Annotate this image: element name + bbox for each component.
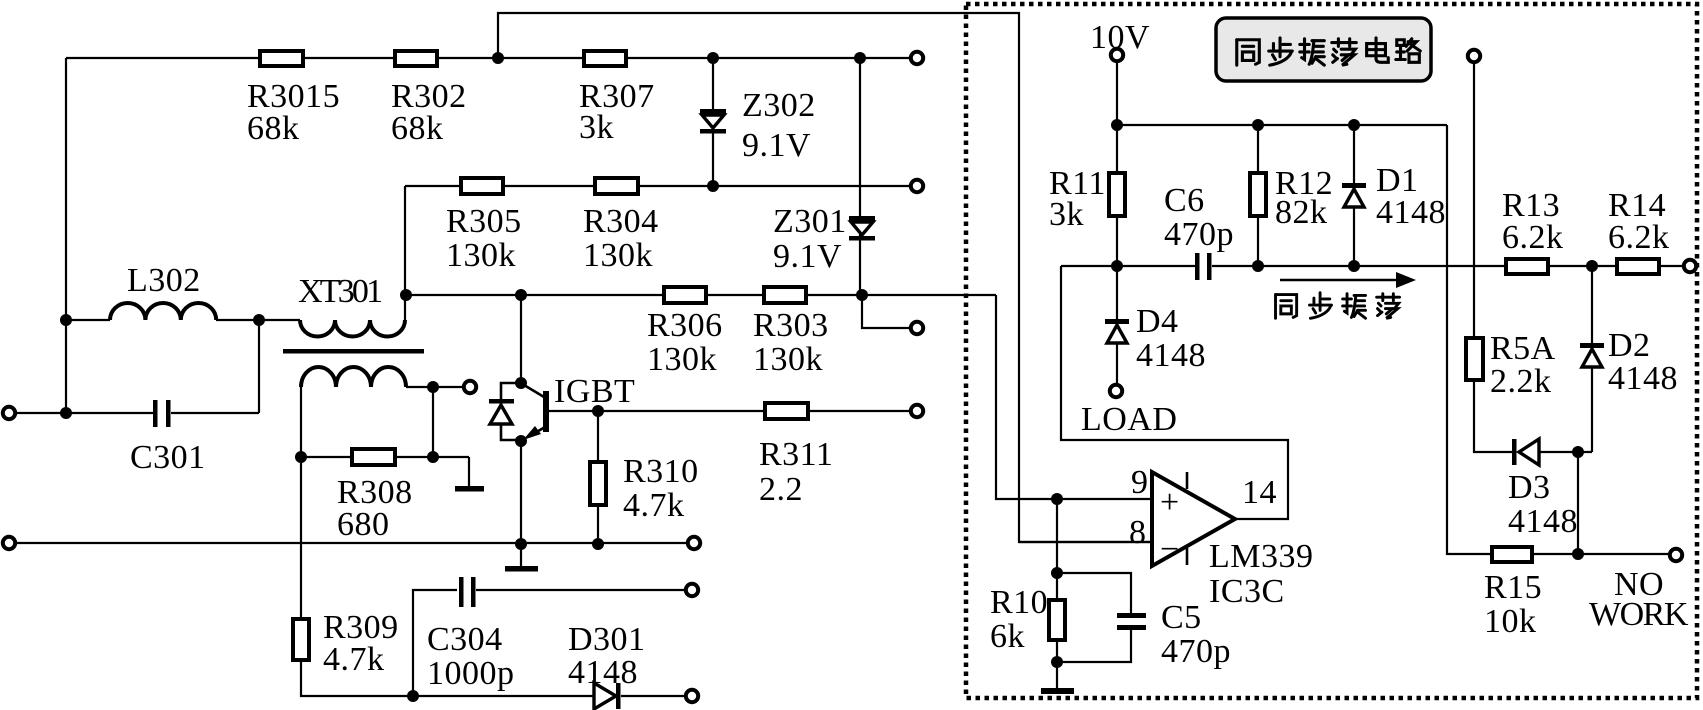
node pin9 R10 [1051,493,1063,505]
svg-text:L302: L302 [127,262,201,299]
node R308 left [295,451,307,463]
svg-text:D3: D3 [1508,469,1551,506]
svg-text:130k: 130k [647,341,717,378]
resistor R13 [1506,259,1548,274]
wire row2 left drop to XT301 node [404,186,406,295]
wire D3 node down [1577,452,1579,554]
node IGBT collector [515,377,527,389]
svg-text:4148: 4148 [1376,194,1446,231]
svg-text:LOAD: LOAD [1081,401,1177,438]
svg-text:LM339: LM339 [1209,538,1314,575]
svg-text:4.7k: 4.7k [623,487,685,524]
wire R5A vertical [1473,62,1475,338]
terminal row2 right [911,180,923,192]
node IGBT emitter [515,435,527,447]
wire C301 right vertical [258,320,260,413]
svg-text:+: + [1160,484,1180,521]
svg-text:9.1V: 9.1V [773,238,842,275]
node sync rail R11 [1111,260,1123,272]
wire left vertical main input [65,58,67,413]
svg-text:R310: R310 [623,453,699,490]
svg-text:4148: 4148 [1608,360,1678,397]
terminal LOAD [1110,385,1122,397]
node C301 left [60,407,72,419]
svg-text:R311: R311 [759,436,833,473]
svg-text:10V: 10V [1090,19,1150,56]
svg-text:10k: 10k [1484,603,1537,640]
node sync rail R12 [1252,260,1264,272]
dotted border sync box [966,4,1697,698]
IGBT body [501,383,549,440]
title text tong bu zhen dang dian lu [1237,40,1260,65]
resistor R311 [765,403,808,419]
svg-text:C301: C301 [130,439,206,476]
wire secondary right vertical [432,387,434,457]
wire R309 bottom to bottom rail [301,660,594,696]
node top rail R11 [1111,119,1123,131]
wire pin14 feedback loop [1061,266,1288,519]
svg-text:4.7k: 4.7k [323,641,385,678]
svg-text:9: 9 [1131,464,1149,501]
diode D1 [1353,125,1355,266]
resistor R12 [1257,125,1259,266]
wire R5A bottom to D3 [1474,380,1513,452]
node gate-R310 [592,405,604,417]
wire emitter rail [16,542,688,544]
wire row3 into box down to pin9 [996,295,1152,499]
svg-text:R304: R304 [583,203,659,240]
node row3-XT301 [400,289,412,301]
diode D2 [1580,343,1604,348]
node row1-Z302 [707,52,719,64]
svg-text:2.2: 2.2 [759,471,803,508]
svg-text:R303: R303 [753,307,829,344]
resistor R306 [664,287,706,303]
svg-text:470p: 470p [1161,633,1231,670]
terminal emitter rail left [3,537,15,549]
svg-text:6.2k: 6.2k [1608,219,1670,256]
svg-text:68k: 68k [247,110,300,147]
terminal emitter rail right [688,537,700,549]
node rail-R310 [592,538,604,550]
diode D4 [1116,266,1118,384]
node L302 left [60,314,72,326]
svg-text:D301: D301 [568,621,646,658]
zener Z301 9.1V [849,216,875,241]
svg-text:6.2k: 6.2k [1502,219,1564,256]
wire C301 row [16,412,259,414]
terminal 10V [1111,49,1123,61]
svg-text:R305: R305 [446,203,522,240]
wire Z301 vertical [859,58,861,295]
wire R11 bottom [1116,216,1118,266]
node secondary right [427,381,439,393]
svg-text:WORK: WORK [1589,596,1689,633]
svg-text:C304: C304 [427,621,503,658]
inductor L302 [66,319,259,321]
node D3 D2 junction [1572,446,1584,458]
wire row3 stub to terminal [862,295,911,328]
svg-text:Z302: Z302 [742,87,816,124]
wire secondary left vertical [300,387,302,619]
diode D301 [594,683,616,709]
node R10 C5 bottom [1051,656,1063,668]
svg-text:130k: 130k [583,237,653,274]
wire row2 [405,185,911,187]
terminal secondary right [464,381,476,393]
wire gate row [549,410,911,412]
terminal row3 right [911,322,923,334]
wire top loop from node above R302-R307 to sync box pin8 line [498,13,1152,542]
resistor R10 [1049,600,1065,640]
capacitor C6 [1195,253,1200,280]
svg-text:680: 680 [337,506,390,543]
wire row3 [405,294,996,296]
wire pin8 from top [1019,541,1152,543]
resistor R15 [1492,547,1532,562]
terminal bottom rail right [686,690,698,702]
svg-text:3k: 3k [1049,196,1084,233]
wire R10 branch vertical [1056,499,1058,600]
op-amp U1 LM339 IC3C [1152,472,1235,566]
diode D3 [1512,439,1517,465]
svg-text:6k: 6k [990,618,1025,655]
svg-text:C6: C6 [1164,182,1205,219]
svg-text:R5A: R5A [1490,330,1556,367]
node L302 right [253,314,265,326]
node sync rail D1 [1348,260,1360,272]
capacitor C301 [153,400,158,427]
wire C5 top branch [1057,573,1131,615]
resistor R309 [293,619,309,660]
transformer XT301 core [283,349,424,354]
resistor R310 [597,411,599,544]
wire 10V down [1116,61,1118,173]
resistor R302 [395,51,437,66]
svg-text:R15: R15 [1484,569,1542,606]
node R10 C5 top [1051,567,1063,579]
arrow text tong bu zhen dang [1276,295,1297,319]
svg-text:4148: 4148 [1508,503,1578,540]
svg-text:Z301: Z301 [773,203,847,240]
svg-text:82k: 82k [1275,194,1328,231]
resistor R14 [1617,259,1659,274]
resistor R3015 [260,51,303,66]
svg-text:14: 14 [1242,474,1277,511]
terminal C304 right [686,584,698,596]
wire R10 bottom [1056,640,1058,689]
svg-text:D2: D2 [1608,327,1651,364]
resistor R307 [584,51,626,66]
ground after R308 [468,457,470,486]
title box [1216,18,1431,81]
ground R10 [1041,688,1074,694]
svg-text:68k: 68k [391,110,444,147]
capacitor C5 [1117,613,1146,618]
svg-text:4148: 4148 [568,654,638,691]
resistor R303 [764,287,806,303]
zener Z302 9.1V [700,109,726,134]
node top rail D1 [1348,119,1360,131]
svg-text:D4: D4 [1136,303,1179,340]
svg-text:470p: 470p [1164,216,1234,253]
terminal NO WORK [1670,549,1682,561]
node row1-top-loop [492,52,504,64]
resistor R308 [301,456,469,458]
resistor R5A [1466,338,1483,380]
terminal R5A top [1468,50,1480,62]
wire D2 vertical [1591,266,1593,452]
node R15 D3 [1572,548,1584,560]
svg-text:IC3C: IC3C [1209,573,1285,610]
wire C304 branch vertical [413,590,457,696]
node sync rail D2 [1586,260,1598,272]
IGBT collector wire [520,295,522,383]
svg-text:1000p: 1000p [427,655,515,692]
transformer XT301 primary [259,295,405,320]
node row2-Z302 [707,180,719,192]
svg-text:C5: C5 [1161,599,1202,636]
terminal gate row right [911,405,923,417]
wire IGBT emitter down [520,441,522,566]
wire Z302 vertical [712,58,714,186]
svg-text:XT301: XT301 [298,273,381,310]
svg-text:3k: 3k [579,109,614,146]
svg-text:130k: 130k [753,341,823,378]
terminal sync rail right [1684,260,1696,272]
wire row1 bus 300V [66,57,911,59]
wire top rail right drop to R15 [1447,125,1492,554]
node R308 right [427,451,439,463]
svg-text:IGBT: IGBT [554,373,635,410]
wire top rail 10V [1117,124,1447,126]
capacitor C304 [459,577,464,607]
terminal row1 right [911,52,923,64]
node row3-Z301 [856,289,868,301]
terminal C301 left [3,407,15,419]
resistor R305 [461,178,503,194]
node row1-Z301 [854,52,866,64]
svg-text:4148: 4148 [1136,337,1206,374]
svg-text:−: − [1160,531,1180,568]
transformer XT301 secondary [301,367,406,387]
svg-text:8: 8 [1129,514,1147,551]
node row3-IGBT-collector [515,289,527,301]
svg-text:R10: R10 [990,584,1048,621]
node bottom rail C304 branch [407,690,419,702]
wire sync rail [1061,265,1684,267]
IGBT freewheel diode [489,399,514,424]
ground IGBT emitter [505,566,538,572]
arrow sync [1280,279,1398,282]
svg-text:130k: 130k [446,237,516,274]
node top rail R12 [1252,119,1264,131]
svg-text:R306: R306 [647,307,723,344]
svg-text:2.2k: 2.2k [1490,363,1552,400]
resistor R304 [595,178,638,194]
svg-text:9.1V: 9.1V [742,127,811,164]
resistor R11 [1109,173,1125,216]
node emitter rail [515,538,527,550]
